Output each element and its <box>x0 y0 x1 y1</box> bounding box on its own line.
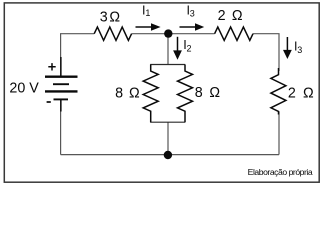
svg-text:Ω: Ω <box>232 8 243 24</box>
svg-text:8: 8 <box>115 85 123 101</box>
current arrow I3 (right) <box>283 37 292 59</box>
wire: parallel pair top bar <box>150 64 185 66</box>
svg-text:Elaboração própria: Elaboração própria <box>248 167 313 177</box>
svg-text:20 V: 20 V <box>9 80 39 96</box>
node A (top junction) <box>164 29 172 37</box>
current arrow I1 <box>136 23 161 30</box>
battery minus sign <box>47 101 51 103</box>
svg-text:Ω: Ω <box>109 10 120 26</box>
resistor R3 8ohm (right of parallel pair, vertical) <box>178 65 193 123</box>
svg-text:3: 3 <box>190 8 195 18</box>
svg-text:8: 8 <box>195 85 203 101</box>
wire: node A down to parallel pair top bar <box>167 34 169 65</box>
svg-text:2: 2 <box>187 43 192 53</box>
svg-text:Ω: Ω <box>209 85 220 101</box>
current arrow I2 <box>173 37 182 60</box>
wire: parallel pair bottom bar down to node B <box>167 122 169 154</box>
resistor R5 2ohm (right branch, vertical) <box>271 68 286 115</box>
svg-text:Ω: Ω <box>129 85 140 101</box>
svg-text:3: 3 <box>297 45 302 55</box>
wire: right branch lower segment to bottom rail <box>278 112 280 155</box>
wire: parallel pair bottom bar <box>150 121 185 123</box>
wire: bottom rail <box>61 154 279 156</box>
wire: battery negative to bottom rail <box>60 100 62 155</box>
resistor R1 3ohm (top left, horizontal) <box>94 27 131 40</box>
svg-text:1: 1 <box>145 8 150 18</box>
battery V1 20V <box>45 57 78 112</box>
svg-text:3: 3 <box>100 10 108 26</box>
wire: top rail left segment (battery top corner to R 3ohm) <box>61 34 95 77</box>
resistor R4 2ohm (top right, horizontal) <box>215 27 253 40</box>
svg-text:2: 2 <box>288 85 296 101</box>
wire: top rail middle segment (3ohm to 2ohm through node A) <box>132 33 215 35</box>
svg-text:2: 2 <box>218 8 226 24</box>
current arrow I3 (top) <box>180 23 205 30</box>
battery plus sign <box>48 63 55 70</box>
wire: top rail right segment and right branch down <box>253 34 279 71</box>
node B (bottom junction) <box>164 151 172 159</box>
resistor R2 8ohm (left of parallel pair, vertical) <box>143 65 158 123</box>
svg-text:Ω: Ω <box>303 85 314 101</box>
